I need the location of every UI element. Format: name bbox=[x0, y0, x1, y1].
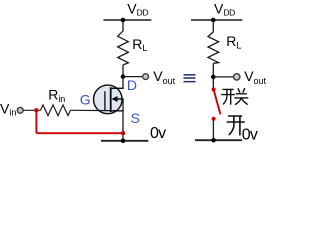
wire: right Vout node to terminal bbox=[213, 76, 233, 78]
node: left ground junction bbox=[121, 139, 126, 144]
annotation 关 of 开关 (switch) bbox=[235, 89, 248, 105]
node: right VDD junction bbox=[211, 18, 216, 23]
switch SW1 top contact bbox=[212, 87, 216, 91]
svg-text:G: G bbox=[80, 92, 91, 108]
svg-text:D: D bbox=[127, 77, 137, 93]
wire: red vertical drop bbox=[35, 110, 37, 133]
terminal: Vin bbox=[17, 107, 23, 113]
svg-text:RL: RL bbox=[226, 33, 241, 50]
svg-text:Rin: Rin bbox=[48, 87, 65, 104]
wire: switch bottom lead bbox=[212, 121, 214, 140]
node: right Vout junction bbox=[211, 75, 216, 80]
Q1 drain stub (horizontal) bbox=[111, 87, 124, 89]
resistor Rin bbox=[41, 105, 71, 116]
Q1 channel bar bbox=[110, 87, 112, 112]
wire: right VDD to RL bbox=[212, 20, 214, 32]
wire: right 0v rail bbox=[195, 139, 242, 141]
symbol: equivalence (triple bar) bbox=[184, 74, 196, 82]
resistor RL (left) bbox=[118, 31, 129, 65]
svg-text:S: S bbox=[131, 110, 140, 126]
wire: left 0v rail bbox=[101, 140, 148, 142]
Q1 substrate stub bbox=[117, 98, 124, 100]
svg-text:Vout: Vout bbox=[153, 68, 175, 86]
wire: Rin to gate bbox=[71, 109, 111, 111]
svg-text:Vout: Vout bbox=[244, 68, 266, 86]
switch SW1 bottom contact bbox=[212, 117, 216, 121]
wire: switch top lead bbox=[212, 77, 214, 88]
wire: left Vout node to terminal bbox=[123, 76, 143, 78]
svg-text:Vin: Vin bbox=[0, 100, 16, 117]
Q1 drain wire (vertical) bbox=[122, 77, 124, 89]
wire: left VDD rail bbox=[104, 19, 152, 21]
svg-text:RL: RL bbox=[132, 36, 147, 53]
wire: Q1 source down to ground rail bbox=[122, 99, 124, 141]
node: left VDD junction bbox=[121, 18, 126, 23]
node: red junction at Vin bbox=[34, 108, 38, 112]
terminal: right Vout bbox=[234, 74, 240, 80]
svg-text:0v: 0v bbox=[150, 125, 166, 142]
node: left Vout junction bbox=[121, 74, 126, 79]
node: right ground junction bbox=[211, 138, 216, 143]
wire: left VDD to RL bbox=[122, 20, 124, 31]
terminal: left Vout bbox=[143, 74, 149, 80]
annotation 开 of 开关 (switch) bbox=[222, 89, 235, 104]
Q1 substrate arrow bbox=[112, 96, 118, 102]
node: red junction at source bbox=[121, 131, 125, 135]
annotation 开 (open) bbox=[227, 116, 244, 135]
svg-text:VDD: VDD bbox=[214, 0, 235, 17]
wire: Vin terminal to junction bbox=[23, 109, 40, 111]
Q1 gate bar bbox=[104, 91, 106, 111]
switch SW1 lever (open) bbox=[214, 90, 221, 114]
Q1 source stub (horizontal) bbox=[111, 110, 124, 112]
svg-text:0v: 0v bbox=[242, 126, 258, 143]
wire: red bottom run bbox=[36, 132, 123, 134]
wire: right VDD rail bbox=[191, 19, 242, 21]
resistor RL (right) bbox=[208, 32, 219, 63]
wire: right RL to Vout node bbox=[212, 63, 214, 77]
MOSFET Q1 body circle bbox=[94, 85, 123, 114]
wire: RL to Vout node (left) bbox=[122, 65, 124, 77]
svg-text:VDD: VDD bbox=[127, 0, 148, 17]
